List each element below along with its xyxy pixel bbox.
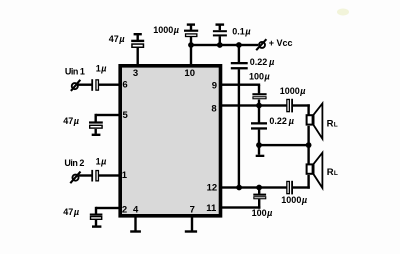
wire input2 to C12 xyxy=(79,174,92,176)
wire mid line xyxy=(259,144,309,146)
svg-text:9: 9 xyxy=(212,80,217,91)
svg-text:0.1µ: 0.1µ xyxy=(232,27,250,37)
svg-text:Uin 1: Uin 1 xyxy=(65,67,85,77)
capacitor C4 0.22u (Vcc to pin 12 line) xyxy=(231,45,248,189)
op-amp U1 (IC body) xyxy=(120,66,220,216)
node junction dot pin8/C5/C7 xyxy=(256,103,262,109)
svg-text:1: 1 xyxy=(122,170,128,181)
wire pin 5 xyxy=(96,114,121,116)
wire pin 8 xyxy=(219,104,287,106)
svg-text:4: 4 xyxy=(133,204,139,215)
svg-text:5: 5 xyxy=(123,110,129,121)
node junction dot speakers mid xyxy=(306,142,312,148)
wire Vcc rail xyxy=(191,44,258,46)
svg-text:47µ: 47µ xyxy=(109,34,125,44)
capacitor C12 1u (input 2) xyxy=(91,170,98,182)
node junction dot pin12/C4 xyxy=(236,185,242,191)
capacitor C13 47u at pin 2 xyxy=(90,207,103,226)
svg-text:+ Vcc: + Vcc xyxy=(269,38,293,48)
node junction dot pin12/C9 xyxy=(256,185,262,191)
capacitor C8 1000u series (pin 12) xyxy=(287,181,293,195)
speaker LS1 xyxy=(307,104,323,139)
capacitor C6 1000u series (pin 8) xyxy=(287,99,293,113)
terminal input 2 xyxy=(70,172,80,184)
svg-text:100µ: 100µ xyxy=(252,208,273,218)
node junction dot mid/C7/ground xyxy=(256,142,262,148)
wire C12 to pin 1 xyxy=(99,174,121,176)
wire C10 to pin 6 xyxy=(99,84,121,86)
wire speaker1 bottom lead xyxy=(307,126,309,146)
svg-text:2: 2 xyxy=(122,204,127,215)
svg-text:12: 12 xyxy=(207,183,218,194)
ground pin 4 xyxy=(130,217,141,233)
capacitor C1 47u at pin 3 xyxy=(131,33,144,47)
capacitor C5 100u (pin9 to pin8) xyxy=(252,85,266,106)
svg-text:1000µ: 1000µ xyxy=(280,86,306,96)
ground below C13 xyxy=(92,225,101,227)
capacitor C10 1u (input 1) xyxy=(91,79,98,91)
wire pin8 to speaker xyxy=(292,104,310,106)
wire input1 to C10 xyxy=(78,84,92,86)
svg-text:0.22µ: 0.22µ xyxy=(269,116,294,126)
svg-text:7: 7 xyxy=(190,204,195,215)
svg-text:47µ: 47µ xyxy=(63,207,79,217)
wire pin 9 xyxy=(219,84,260,86)
wire pin3 lead xyxy=(137,48,139,65)
node junction dot rail/C3 xyxy=(217,42,223,48)
svg-text:0.22µ: 0.22µ xyxy=(250,57,275,67)
capacitor C11 47u at pin 5 xyxy=(89,114,103,134)
node junction dot rail/C4 xyxy=(236,42,242,48)
terminal +Vcc xyxy=(256,39,266,50)
svg-text:1000µ: 1000µ xyxy=(281,195,307,205)
ground pin 7 xyxy=(185,217,197,233)
svg-text:1µ: 1µ xyxy=(96,157,107,167)
capacitor C3 0.1u xyxy=(213,23,227,45)
wire pin 12 xyxy=(219,186,287,188)
svg-text:10: 10 xyxy=(184,68,195,79)
svg-text:3: 3 xyxy=(133,68,138,79)
node junction dot rail/pin10 xyxy=(188,42,194,48)
wire pin 2 xyxy=(96,207,121,209)
ground below C7 xyxy=(256,145,265,157)
wire pin 11 xyxy=(219,206,260,208)
ground below C11 xyxy=(92,134,101,136)
wire speaker2 bottom lead xyxy=(307,175,309,189)
svg-text:1000µ: 1000µ xyxy=(153,25,179,35)
wire speaker2 top lead xyxy=(307,145,309,164)
wire pin10 lead xyxy=(190,37,192,65)
svg-text:Uin 2: Uin 2 xyxy=(64,158,84,168)
svg-text:6: 6 xyxy=(122,80,127,91)
speaker LS2 xyxy=(307,153,323,188)
wire C8 to speaker2 xyxy=(292,186,310,188)
svg-text:100µ: 100µ xyxy=(249,72,270,82)
svg-text:8: 8 xyxy=(211,104,216,115)
capacitor C2 1000u at pin 10 xyxy=(184,23,198,36)
terminal input 1 xyxy=(71,80,80,91)
svg-text:11: 11 xyxy=(206,203,217,214)
capacitor C9 100u (pin12 to pin11) xyxy=(253,188,266,209)
wire speaker1 top lead xyxy=(307,104,309,116)
svg-text:47µ: 47µ xyxy=(63,116,79,126)
svg-text:1µ: 1µ xyxy=(96,64,107,74)
capacitor C7 0.22u (pin8 junction to mid) xyxy=(251,106,267,144)
